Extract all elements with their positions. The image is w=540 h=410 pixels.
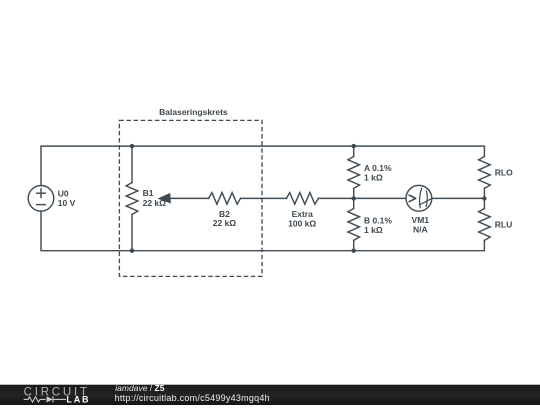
junction node A top (352, 144, 356, 148)
junction node B1 bottom (130, 249, 134, 253)
svg-text:N/A: N/A (413, 225, 428, 235)
svg-text:B 0.1%: B 0.1% (364, 215, 392, 225)
wire A column to mid (353, 188, 355, 198)
svg-text:100 kΩ: 100 kΩ (288, 218, 316, 228)
U0 plus sign (37, 192, 46, 194)
potentiometer wiper arrow (158, 193, 171, 204)
wire top rail (41, 146, 484, 186)
resistor B2 22k (209, 193, 241, 205)
voltage source U0 circle (28, 186, 54, 212)
voltmeter VM1 circle (406, 185, 432, 211)
resistor RLO (479, 157, 491, 189)
wire node to VM1 (354, 197, 406, 199)
svg-text:B1: B1 (143, 188, 154, 198)
svg-text:iamdave / Z5: iamdave / Z5 (115, 383, 164, 393)
svg-text:RLO: RLO (495, 168, 513, 178)
wire B column mid (353, 198, 355, 208)
resistor B1 22k (126, 183, 138, 215)
svg-text:Extra: Extra (292, 209, 314, 219)
junction node B1 top (130, 144, 134, 148)
svg-text:RLU: RLU (495, 219, 512, 229)
svg-text:1 kΩ: 1 kΩ (364, 172, 383, 182)
wire A column top (353, 146, 355, 156)
U0 minus sign (37, 204, 46, 206)
svg-text:VM1: VM1 (412, 215, 430, 225)
junction node B bottom (352, 249, 356, 253)
svg-text:22 kΩ: 22 kΩ (213, 218, 237, 228)
wire B2 to Extra (241, 197, 287, 199)
voltmeter VM1 inner symbol (419, 188, 432, 209)
svg-text:Balaseringskrets: Balaseringskrets (159, 107, 228, 117)
wire B column bottom (353, 240, 355, 250)
svg-text:1 kΩ: 1 kΩ (364, 225, 383, 235)
wire Extra to node mid (318, 197, 353, 199)
resistor RLU (479, 209, 491, 241)
svg-text:A 0.1%: A 0.1% (364, 163, 392, 173)
wire RLO to mid junction (483, 188, 485, 208)
wire B1 column top (131, 146, 133, 183)
svg-text:22 kΩ: 22 kΩ (143, 198, 167, 208)
resistor B 1k (348, 209, 360, 241)
svg-text:10 V: 10 V (58, 198, 76, 208)
wire bottom rail (41, 211, 484, 251)
svg-text:http://circuitlab.com/c5499y43: http://circuitlab.com/c5499y43mgq4h (115, 393, 270, 403)
wire VM1 to right rail (432, 197, 485, 199)
junction node AB mid (352, 196, 356, 200)
logo squiggle resistor-diode (24, 396, 66, 402)
resistor Extra 100k (286, 193, 318, 205)
dashed box Balaseringskrets (119, 120, 262, 276)
svg-text:LAB: LAB (66, 394, 90, 404)
wire B1 column bottom (131, 215, 133, 251)
voltmeter VM1 greater-than mark (409, 195, 416, 202)
resistor A 1k (348, 157, 360, 189)
junction node RL mid (482, 196, 486, 200)
wire mid arrow to B2 (171, 197, 209, 199)
